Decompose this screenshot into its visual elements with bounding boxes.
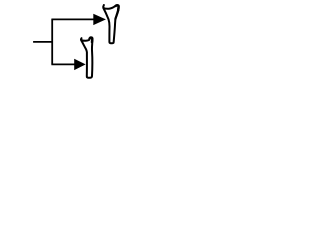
arrowhead bottom <box>75 59 86 69</box>
hook knob top icon <box>116 5 119 9</box>
wire input <box>33 41 53 43</box>
hammer icon top <box>103 5 118 43</box>
wire top branch <box>51 18 94 20</box>
hook knob bottom icon <box>90 37 93 42</box>
head right edge top icon <box>115 10 118 20</box>
wire vertical bus <box>51 19 53 64</box>
hammer icon bottom <box>81 37 92 77</box>
arrowhead top <box>94 14 106 24</box>
wire bottom branch <box>51 63 75 65</box>
